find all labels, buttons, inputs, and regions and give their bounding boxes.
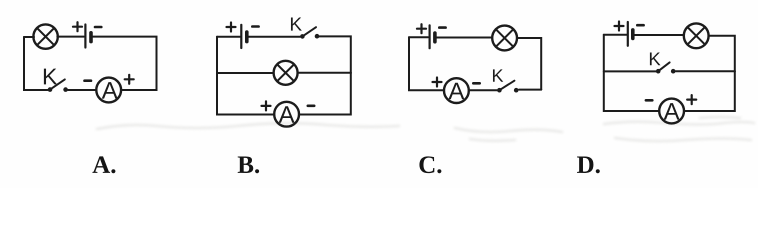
lamp (circuit C) bbox=[492, 26, 517, 51]
wire C: switch to ammeter bbox=[469, 89, 497, 91]
label - (battery A) bbox=[95, 26, 101, 29]
switch K (circuit C) blade bbox=[499, 81, 514, 91]
wire D: switch to middle-right segment bbox=[676, 70, 735, 72]
ammeter (circuit C) bbox=[444, 78, 469, 103]
battery (circuit C) positive plate bbox=[429, 25, 431, 48]
battery (circuit B) negative plate bbox=[245, 32, 249, 42]
wire D: lamp to top-right corner down to mid-right bbox=[709, 36, 735, 72]
label - (ammeter C) bbox=[473, 82, 479, 85]
switch K (circuit A) blade bbox=[50, 79, 65, 89]
answer label B. bbox=[238, 157, 259, 174]
label + (battery B) bbox=[227, 23, 236, 32]
battery (circuit B) positive plate bbox=[240, 25, 242, 48]
answer label C. bbox=[419, 156, 441, 173]
label + (ammeter C) bbox=[433, 78, 442, 87]
switch K (circuit A) left contact bbox=[48, 87, 53, 92]
wire B: middle branch left segment bbox=[217, 72, 274, 74]
wire B: middle branch right segment bbox=[298, 72, 351, 74]
lamp (circuit B) bbox=[274, 61, 298, 85]
switch K (circuit B) left contact bbox=[300, 34, 305, 39]
wire B: top-left corner to battery bbox=[217, 36, 240, 38]
battery (circuit A) negative plate bbox=[89, 33, 93, 42]
wire C: top-left corner to battery bbox=[409, 36, 428, 38]
wire B: mid-right down to bottom-right corner to ammeter bbox=[299, 73, 351, 115]
wire C: lamp to top-right corner down to bottom-right bbox=[517, 38, 541, 90]
switch K (circuit B) blade bbox=[302, 27, 316, 36]
label + (ammeter A) bbox=[125, 75, 134, 84]
switch K (circuit C) right contact bbox=[514, 88, 519, 93]
wire B: ammeter to bottom-left corner and up bbox=[217, 37, 274, 115]
label K (circuit C) bbox=[493, 69, 503, 81]
label + (ammeter B) bbox=[262, 101, 271, 110]
label K (circuit D) bbox=[650, 52, 661, 65]
wire D: ammeter to bottom-left corner and up bbox=[604, 35, 659, 111]
label K (circuit A) bbox=[44, 69, 57, 85]
switch K (circuit D) left contact bbox=[656, 69, 661, 74]
label - (battery B) bbox=[252, 25, 258, 28]
wire C: bottom-right corner to switch bbox=[519, 89, 541, 91]
label - (ammeter B) bbox=[308, 105, 314, 108]
switch K (circuit D) right contact bbox=[671, 69, 676, 74]
answer label A. bbox=[92, 156, 115, 173]
lamp (circuit D) bbox=[684, 23, 709, 48]
lamp (circuit A) bbox=[33, 24, 57, 48]
label - (ammeter A) bbox=[85, 79, 92, 82]
wire B: switch to top-right corner down to mid-right bbox=[319, 36, 351, 73]
wire A: battery to right side down to ammeter bbox=[93, 37, 157, 90]
label - (battery C) bbox=[439, 26, 445, 29]
ammeter (circuit A) bbox=[96, 78, 121, 103]
wire C: battery to lamp bbox=[437, 37, 491, 39]
wire D: battery to lamp bbox=[635, 34, 683, 36]
ammeter (circuit B) bbox=[274, 102, 299, 127]
battery (circuit A) positive plate bbox=[84, 25, 86, 48]
label + (battery C) bbox=[417, 24, 426, 33]
switch K (circuit D) blade bbox=[658, 62, 669, 71]
switch K (circuit C) left contact bbox=[497, 88, 502, 93]
wire A: top-left corner to lamp bbox=[24, 36, 34, 38]
wire B: battery to switch bbox=[249, 36, 300, 38]
wire A: switch to bottom-left corner and up bbox=[24, 37, 48, 90]
label - (ammeter D) bbox=[646, 99, 652, 102]
wire A: ammeter to switch bbox=[68, 89, 96, 91]
battery (circuit D) negative plate bbox=[631, 30, 635, 39]
wire A: lamp to battery bbox=[57, 36, 84, 38]
switch K (circuit A) right contact bbox=[63, 87, 68, 92]
label + (battery D) bbox=[615, 22, 624, 31]
label + (battery A) bbox=[73, 22, 82, 31]
label - (battery D) bbox=[637, 24, 643, 27]
wire D: top-left corner to battery bbox=[604, 34, 627, 36]
wire D: middle branch left segment bbox=[604, 70, 656, 72]
wire D: mid-right down to bottom-right corner to ammeter bbox=[685, 72, 735, 112]
label K (circuit B) bbox=[291, 18, 302, 31]
battery (circuit C) negative plate bbox=[433, 33, 437, 42]
ammeter (circuit D) bbox=[659, 99, 684, 124]
answer label D. bbox=[577, 157, 600, 174]
wire C: ammeter to bottom-left corner and up bbox=[409, 37, 444, 90]
switch K (circuit B) right contact bbox=[315, 34, 320, 39]
battery (circuit D) positive plate bbox=[627, 22, 629, 46]
label + (ammeter D) bbox=[687, 95, 696, 104]
